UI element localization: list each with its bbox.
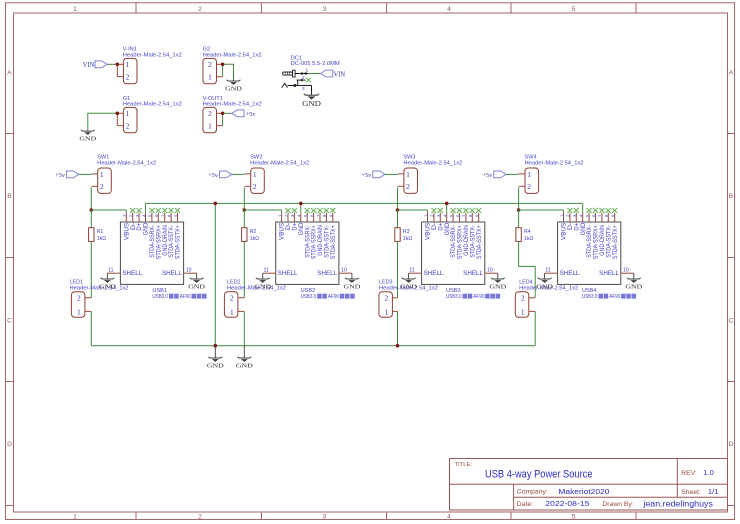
svg-text:D+: D+ xyxy=(137,222,143,230)
value label USB3.0 AF receptacle for USB3 xyxy=(446,294,500,301)
header V-OUT1 xyxy=(203,96,262,133)
svg-text:TITLE:: TITLE: xyxy=(455,462,473,468)
svg-text:Drawn By:: Drawn By: xyxy=(602,501,633,508)
wire V-OUT1 pin 2 to +5v flag xyxy=(223,112,232,114)
svg-text:STDA-SSRX-: STDA-SSRX- xyxy=(150,225,156,258)
svg-text:C: C xyxy=(729,318,734,325)
svg-text:STDA-SSTX+: STDA-SSTX+ xyxy=(613,225,619,259)
ground xyxy=(236,346,253,370)
svg-text:GND: GND xyxy=(445,222,451,235)
svg-text:2: 2 xyxy=(406,182,410,191)
svg-text:SHELL: SHELL xyxy=(560,270,580,277)
wire VBUS node to R1 top xyxy=(90,210,92,228)
svg-text:USB3.0: USB3.0 xyxy=(446,294,462,300)
svg-text:A: A xyxy=(729,70,734,77)
svg-text:R4: R4 xyxy=(524,229,531,235)
wire SW2 pin 2 down to VBUS node xyxy=(243,187,245,210)
no-connect marks USB1 xyxy=(130,208,180,213)
svg-text:1: 1 xyxy=(208,122,212,131)
svg-text:2: 2 xyxy=(230,294,234,303)
svg-text:1: 1 xyxy=(385,307,389,316)
svg-text:1.0: 1.0 xyxy=(703,468,714,477)
USB connector USB1 xyxy=(107,213,196,294)
no-connect marks USB3 xyxy=(431,208,481,213)
svg-text:D: D xyxy=(729,441,734,448)
svg-text:SHELL: SHELL xyxy=(463,270,483,277)
wire G2 pin 2 to ground xyxy=(223,64,234,80)
USB connector USB2 xyxy=(263,213,352,294)
svg-text:1: 1 xyxy=(527,170,531,179)
svg-text:1: 1 xyxy=(521,307,525,316)
wire G1 pin 1 to ground xyxy=(88,113,118,130)
resistor R4 1kOhm xyxy=(516,228,534,242)
svg-text:1: 1 xyxy=(100,170,104,179)
svg-text:GND: GND xyxy=(254,284,271,291)
svg-text:AF90: AF90 xyxy=(609,294,620,300)
ground xyxy=(79,130,96,143)
header V-IN1 xyxy=(117,46,182,84)
USB connector USB4 xyxy=(545,213,634,294)
svg-text:GND: GND xyxy=(225,86,242,93)
svg-text:2: 2 xyxy=(126,73,130,82)
svg-text:A: A xyxy=(7,70,12,77)
ground xyxy=(344,273,361,290)
svg-text:AF90: AF90 xyxy=(473,294,484,300)
svg-text:GND-DRAIN: GND-DRAIN xyxy=(163,225,169,256)
svg-text:STDA-SSRX+: STDA-SSRX+ xyxy=(156,225,162,259)
wire VBUS node to USB3 pin 1 xyxy=(398,210,428,213)
svg-text:D+: D+ xyxy=(574,222,580,230)
header LED3 xyxy=(379,280,438,318)
svg-text:10: 10 xyxy=(623,268,629,274)
svg-text:USB 4-way Power Source: USB 4-way Power Source xyxy=(485,468,593,480)
svg-text:R2: R2 xyxy=(250,229,257,235)
svg-text:USB2: USB2 xyxy=(301,288,316,294)
svg-text:Sheet:: Sheet: xyxy=(681,489,701,496)
svg-text:USB3: USB3 xyxy=(446,288,461,294)
junction G1 pin 1 xyxy=(116,112,120,116)
svg-text:1kΩ: 1kΩ xyxy=(97,236,106,242)
svg-text:1: 1 xyxy=(126,109,130,118)
resistor R3 1kOhm xyxy=(395,228,413,242)
net flag +5v at SW1 xyxy=(55,171,79,179)
svg-text:GND: GND xyxy=(581,222,587,235)
svg-text:1: 1 xyxy=(73,6,77,13)
ground xyxy=(254,273,271,290)
svg-text:SHELL: SHELL xyxy=(424,270,444,277)
svg-text:11: 11 xyxy=(545,268,550,274)
junction LED3 on bottom rail xyxy=(396,344,400,348)
wire LED4 pin 1 to ground rail xyxy=(534,311,536,345)
ground xyxy=(188,273,205,290)
svg-text:STDA-SSTX-: STDA-SSTX- xyxy=(325,225,331,258)
net flag +5v at SW4 xyxy=(482,171,506,179)
wire VBUS node to USB2 pin 1 xyxy=(244,210,281,213)
junction USB2 GND pin on rail xyxy=(299,202,303,206)
svg-text:Header-Male-2.54_1x2: Header-Male-2.54_1x2 xyxy=(123,101,182,107)
svg-text:2: 2 xyxy=(527,182,531,191)
svg-text:10: 10 xyxy=(186,268,192,274)
svg-text:GND: GND xyxy=(144,222,150,235)
svg-text:STDA-SSTX-: STDA-SSTX- xyxy=(470,225,476,258)
wire VBUS node to USB1 pin 1 xyxy=(91,210,126,213)
svg-text:STDA-SSRX+: STDA-SSRX+ xyxy=(458,225,464,259)
wire +5v flag to SW2 pin 1 xyxy=(232,173,245,175)
svg-text:jean.redelinghuys: jean.redelinghuys xyxy=(642,499,713,508)
svg-text:Company:: Company: xyxy=(517,489,548,496)
svg-text:LED2: LED2 xyxy=(227,280,241,286)
svg-text:10: 10 xyxy=(487,268,493,274)
svg-text:GND-DRAIN: GND-DRAIN xyxy=(318,225,324,256)
svg-text:+5v: +5v xyxy=(55,172,66,179)
svg-text:USB3.0: USB3.0 xyxy=(301,294,317,300)
wire DC1 pin 1 to VIN flag xyxy=(309,73,321,75)
svg-text:B: B xyxy=(729,193,734,200)
wire GND riser top rail to bottom rail xyxy=(214,203,216,345)
svg-text:GND: GND xyxy=(207,363,224,370)
header G1 xyxy=(117,96,182,133)
svg-text:STDA-SSTX-: STDA-SSTX- xyxy=(606,225,612,258)
svg-text:R3: R3 xyxy=(403,229,410,235)
net flag VIN at DC1 xyxy=(321,70,346,78)
wire R3 bottom to LED3 pin 2 xyxy=(397,241,399,297)
svg-text:B: B xyxy=(7,193,12,200)
svg-text:Header-Male-2.54_1x2: Header-Male-2.54_1x2 xyxy=(203,101,262,107)
svg-text:1/1: 1/1 xyxy=(708,487,719,496)
svg-text:1: 1 xyxy=(253,170,257,179)
net flag +5v at V-OUT1 xyxy=(232,110,257,118)
svg-text:2: 2 xyxy=(126,122,130,131)
svg-text:4: 4 xyxy=(447,6,451,13)
wire +5v flag to SW3 pin 1 xyxy=(385,173,398,175)
svg-text:GND-DRAIN: GND-DRAIN xyxy=(600,225,606,256)
wire VBUS node to R2 top xyxy=(243,210,245,228)
wire SW1 pin 2 down to VBUS node xyxy=(90,187,92,210)
svg-text:VBUS: VBUS xyxy=(124,223,130,240)
header SW2 xyxy=(245,155,310,194)
svg-text:D-: D- xyxy=(432,223,438,230)
svg-text:Makeriot2020: Makeriot2020 xyxy=(558,487,609,496)
svg-text:2: 2 xyxy=(198,514,202,521)
svg-text:STDA-SSRX-: STDA-SSRX- xyxy=(451,225,457,258)
USB connector USB3 xyxy=(409,213,498,294)
svg-text:DC-005 5.5-2.0MM: DC-005 5.5-2.0MM xyxy=(291,61,341,67)
svg-text:2: 2 xyxy=(208,109,212,118)
no-connect marks USB2 xyxy=(285,208,335,213)
junction USB3 GND pin on rail xyxy=(445,202,449,206)
svg-text:3: 3 xyxy=(302,86,305,91)
svg-text:SHELL: SHELL xyxy=(278,270,298,277)
ground xyxy=(625,273,642,290)
resistor R1 1kOhm xyxy=(89,228,107,242)
svg-text:SHELL: SHELL xyxy=(599,270,619,277)
wire LED2 pin 1 to ground rail xyxy=(243,311,245,345)
svg-text:USB3.0: USB3.0 xyxy=(152,294,168,300)
svg-text:SHELL: SHELL xyxy=(122,270,142,277)
svg-text:LED3: LED3 xyxy=(379,280,393,286)
svg-text:+5v: +5v xyxy=(482,172,493,179)
wire SW4 pin 2 down to VBUS node xyxy=(518,187,520,210)
svg-text:STDA-SSRX+: STDA-SSRX+ xyxy=(594,225,600,259)
net flag +5v at SW2 xyxy=(208,171,232,179)
svg-text:STDA-SSTX+: STDA-SSTX+ xyxy=(477,225,483,259)
svg-text:11: 11 xyxy=(409,268,414,274)
svg-text:5: 5 xyxy=(572,514,576,521)
svg-text:STDA-SSTX+: STDA-SSTX+ xyxy=(176,225,182,259)
svg-text:GND: GND xyxy=(236,363,253,370)
ground xyxy=(400,273,417,290)
svg-text:1kΩ: 1kΩ xyxy=(403,236,412,242)
ground xyxy=(225,80,242,93)
header SW3 xyxy=(398,155,463,194)
header LED2 xyxy=(224,280,286,318)
svg-text:VIN: VIN xyxy=(83,61,95,69)
ground xyxy=(536,273,553,290)
junction V-OUT1 pin 2 xyxy=(221,112,225,116)
ground xyxy=(302,94,321,108)
net flag VIN xyxy=(83,61,107,69)
header SW1 xyxy=(92,155,157,194)
svg-text:4: 4 xyxy=(447,514,451,521)
resistor R2 1kOhm xyxy=(242,228,260,242)
value label USB3.0 AF receptacle for USB2 xyxy=(301,294,355,301)
svg-text:D+: D+ xyxy=(293,222,299,230)
value label USB3.0 AF receptacle for USB4 xyxy=(582,294,636,301)
wire VBUS node to R3 top xyxy=(397,210,399,228)
svg-text:D-: D- xyxy=(286,223,292,230)
header LED1 xyxy=(70,280,129,318)
svg-text:VBUS: VBUS xyxy=(562,223,568,240)
svg-text:REV:: REV: xyxy=(681,470,697,477)
wire VBUS node to USB4 pin 1 xyxy=(519,210,564,213)
svg-text:STDA-SSRX+: STDA-SSRX+ xyxy=(312,225,318,259)
svg-text:2: 2 xyxy=(208,60,212,69)
junction riser on bottom rail xyxy=(214,344,218,348)
svg-text:G2: G2 xyxy=(203,46,210,52)
svg-text:GND: GND xyxy=(299,222,305,235)
svg-text:1kΩ: 1kΩ xyxy=(524,236,533,242)
svg-text:Header-Male-2.54_1x2: Header-Male-2.54_1x2 xyxy=(97,160,156,166)
svg-text:2: 2 xyxy=(521,294,525,303)
svg-text:3: 3 xyxy=(323,6,327,13)
svg-text:2: 2 xyxy=(385,294,389,303)
ground xyxy=(207,346,224,370)
svg-text:D-: D- xyxy=(568,223,574,230)
svg-text:Header-Male-2.54_1x2: Header-Male-2.54_1x2 xyxy=(250,160,309,166)
svg-text:LED4: LED4 xyxy=(519,280,533,286)
wire LED3 pin 1 to ground rail xyxy=(397,311,399,345)
svg-text:VBUS: VBUS xyxy=(280,223,286,240)
wire R2 bottom to LED2 pin 2 xyxy=(243,241,245,297)
junction VBUS node column 2 xyxy=(243,208,247,212)
svg-text:1: 1 xyxy=(230,307,234,316)
junction riser on top rail xyxy=(214,202,218,206)
svg-text:5: 5 xyxy=(572,6,576,13)
svg-text:V-IN1: V-IN1 xyxy=(123,46,137,52)
wire DC1 pin 3 to ground xyxy=(311,86,313,95)
ground xyxy=(99,273,116,290)
svg-text:GND: GND xyxy=(188,284,205,291)
wire R1 bottom to LED1 pin 2 xyxy=(90,241,92,297)
svg-text:D+: D+ xyxy=(438,222,444,230)
header LED4 xyxy=(515,280,578,318)
wire +5v flag to SW4 pin 1 xyxy=(506,173,519,175)
svg-text:GND: GND xyxy=(79,136,96,143)
svg-text:1: 1 xyxy=(406,170,410,179)
wire VBUS node to R4 top xyxy=(518,210,520,228)
net flag +5v at SW3 xyxy=(361,171,385,179)
wire GND bottom rail xyxy=(91,345,535,347)
wire VIN flag to V-IN1 pin 1 xyxy=(107,63,117,65)
svg-text:2: 2 xyxy=(302,75,305,80)
svg-text:10: 10 xyxy=(341,268,347,274)
junction VBUS node column 4 xyxy=(517,208,521,212)
svg-text:GND: GND xyxy=(625,284,642,291)
svg-text:GND: GND xyxy=(344,284,361,291)
ground xyxy=(489,273,506,290)
svg-text:Header-Male-2.54_1x2: Header-Male-2.54_1x2 xyxy=(403,160,462,166)
svg-text:STDA-SSTX+: STDA-SSTX+ xyxy=(331,225,337,259)
svg-text:D: D xyxy=(7,441,12,448)
svg-text:GND: GND xyxy=(302,100,321,108)
svg-text:2: 2 xyxy=(77,294,81,303)
svg-text:+5v: +5v xyxy=(246,111,257,118)
svg-text:2: 2 xyxy=(100,182,104,191)
svg-text:GND: GND xyxy=(99,284,116,291)
junction VBUS node column 3 xyxy=(396,208,400,212)
svg-text:Header-Male-2.54_1x2: Header-Male-2.54_1x2 xyxy=(203,52,262,58)
svg-text:1: 1 xyxy=(73,514,77,521)
svg-text:C: C xyxy=(7,318,12,325)
svg-text:Header-Male-2.54_1x2: Header-Male-2.54_1x2 xyxy=(123,52,182,58)
svg-text:VIN: VIN xyxy=(334,70,346,78)
svg-text:1: 1 xyxy=(306,68,309,73)
wire LED1 pin 1 to ground rail xyxy=(90,311,92,345)
svg-text:2022-08-15: 2022-08-15 xyxy=(545,499,589,508)
wire +5v flag to SW1 pin 1 xyxy=(79,173,92,175)
svg-text:2: 2 xyxy=(253,182,257,191)
header G2 xyxy=(203,46,262,84)
svg-text:R1: R1 xyxy=(97,229,104,235)
svg-text:STDA-SSTX-: STDA-SSTX- xyxy=(169,225,175,258)
junction VBUS node column 1 xyxy=(90,208,94,212)
svg-text:1: 1 xyxy=(77,307,81,316)
svg-text:USB1: USB1 xyxy=(152,288,167,294)
header SW4 xyxy=(519,155,584,194)
value label USB3.0 AF receptacle for USB1 xyxy=(152,294,206,301)
svg-text:GND-DRAIN: GND-DRAIN xyxy=(464,225,470,256)
wire SW3 pin 2 down to VBUS node xyxy=(397,187,399,210)
svg-text:GND: GND xyxy=(489,284,506,291)
DC jack DC1 xyxy=(282,56,341,91)
no-connect X on DC1 pin 2 xyxy=(306,78,311,83)
svg-text:LED1: LED1 xyxy=(70,280,84,286)
svg-text:SHELL: SHELL xyxy=(317,270,337,277)
svg-text:AF90: AF90 xyxy=(180,294,191,300)
svg-text:Date:: Date: xyxy=(517,501,533,508)
svg-text:STDA-SSRX-: STDA-SSRX- xyxy=(587,225,593,258)
junction V-IN1 pin 1 xyxy=(116,63,120,67)
svg-text:GND: GND xyxy=(400,284,417,291)
svg-text:1kΩ: 1kΩ xyxy=(250,236,259,242)
svg-text:USB4: USB4 xyxy=(582,288,597,294)
wire R4 bottom to LED4 pin 2 xyxy=(519,241,536,297)
no-connect marks USB4 xyxy=(567,208,617,213)
wire GND top rail xyxy=(146,203,583,212)
svg-text:Header-Male-2.54_1x2: Header-Male-2.54_1x2 xyxy=(525,160,584,166)
svg-text:GND: GND xyxy=(536,284,553,291)
svg-text:USB3.0: USB3.0 xyxy=(582,294,598,300)
svg-text:D-: D- xyxy=(131,223,137,230)
title block xyxy=(450,459,728,511)
svg-text:+5v: +5v xyxy=(208,172,219,179)
svg-text:+5v: +5v xyxy=(361,172,372,179)
svg-text:SHELL: SHELL xyxy=(162,270,182,277)
svg-text:1: 1 xyxy=(126,60,130,69)
svg-text:AF90: AF90 xyxy=(328,294,339,300)
svg-text:11: 11 xyxy=(264,268,269,274)
svg-text:VBUS: VBUS xyxy=(426,223,432,240)
svg-text:1: 1 xyxy=(208,73,212,82)
svg-text:11: 11 xyxy=(108,268,113,274)
svg-text:STDA-SSRX-: STDA-SSRX- xyxy=(305,225,311,258)
svg-text:3: 3 xyxy=(323,514,327,521)
svg-text:2: 2 xyxy=(198,6,202,13)
junction G2 pin 2 xyxy=(221,63,225,67)
